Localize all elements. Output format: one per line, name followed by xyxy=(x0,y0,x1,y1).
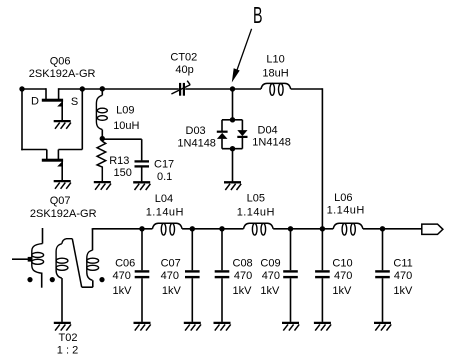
svg-text:1 : 2: 1 : 2 xyxy=(57,344,78,356)
svg-text:2SK192A-GR: 2SK192A-GR xyxy=(30,208,97,220)
svg-text:C10: C10 xyxy=(332,257,352,269)
svg-text:470: 470 xyxy=(113,270,131,282)
svg-text:C07: C07 xyxy=(161,257,181,269)
svg-text:1kV: 1kV xyxy=(162,285,182,297)
svg-text:470: 470 xyxy=(234,270,252,282)
svg-text:1.14uH: 1.14uH xyxy=(237,207,275,219)
svg-text:1kV: 1kV xyxy=(233,285,253,297)
svg-text:1.14uH: 1.14uH xyxy=(327,204,365,216)
svg-text:1N4148: 1N4148 xyxy=(252,137,291,149)
svg-text:T02: T02 xyxy=(59,332,78,344)
svg-text:150: 150 xyxy=(114,167,132,179)
svg-text:D: D xyxy=(31,95,39,107)
svg-text:C08: C08 xyxy=(233,257,253,269)
svg-text:1kV: 1kV xyxy=(113,285,133,297)
svg-text:470: 470 xyxy=(161,270,179,282)
svg-text:Q06: Q06 xyxy=(50,56,71,68)
svg-text:L04: L04 xyxy=(155,193,173,205)
svg-text:470: 470 xyxy=(262,270,280,282)
svg-text:CT02: CT02 xyxy=(170,52,197,64)
svg-text:1kV: 1kV xyxy=(260,285,280,297)
svg-text:Q07: Q07 xyxy=(50,195,71,207)
svg-text:1kV: 1kV xyxy=(393,285,413,297)
svg-text:C09: C09 xyxy=(260,257,280,269)
svg-text:1.14uH: 1.14uH xyxy=(146,207,184,219)
svg-text:10uH: 10uH xyxy=(113,120,139,132)
svg-text:18uH: 18uH xyxy=(262,68,288,80)
svg-text:L06: L06 xyxy=(334,192,352,204)
svg-text:1N4148: 1N4148 xyxy=(177,138,216,150)
svg-text:L09: L09 xyxy=(116,104,134,116)
svg-text:C06: C06 xyxy=(115,257,135,269)
svg-text:40p: 40p xyxy=(175,64,193,76)
svg-text:470: 470 xyxy=(394,270,412,282)
svg-text:C17: C17 xyxy=(154,159,174,171)
svg-text:0.1: 0.1 xyxy=(157,171,172,183)
svg-text:D03: D03 xyxy=(186,125,206,137)
svg-text:B: B xyxy=(253,4,263,29)
svg-text:L10: L10 xyxy=(266,54,284,66)
svg-text:S: S xyxy=(71,96,78,108)
svg-text:R13: R13 xyxy=(109,155,129,167)
svg-text:470: 470 xyxy=(334,270,352,282)
svg-text:D04: D04 xyxy=(258,125,278,137)
svg-text:1kV: 1kV xyxy=(332,285,352,297)
svg-text:2SK192A-GR: 2SK192A-GR xyxy=(29,68,96,80)
svg-text:L05: L05 xyxy=(247,192,265,204)
svg-text:C11: C11 xyxy=(393,257,412,269)
